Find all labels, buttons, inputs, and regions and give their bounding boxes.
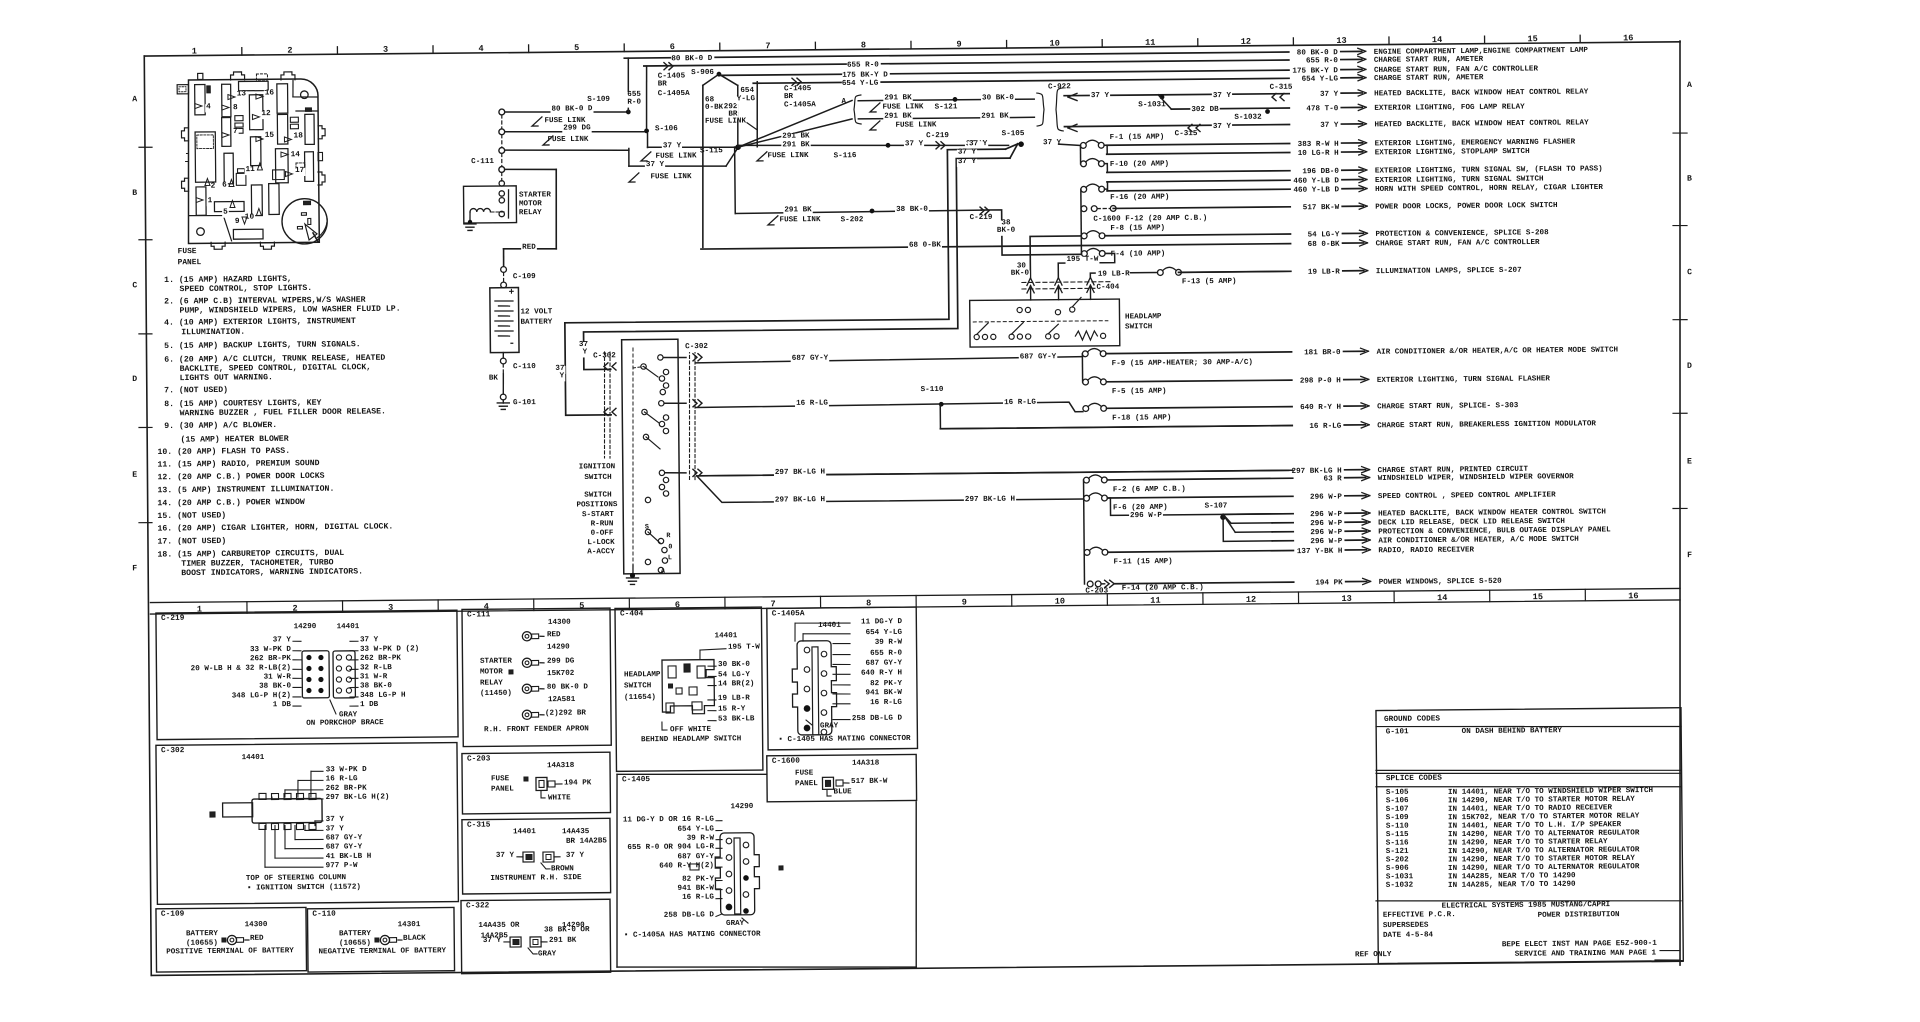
svg-text:IN 14A285, NEAR T/O TO 14290: IN 14A285, NEAR T/O TO 14290 bbox=[1448, 881, 1576, 890]
svg-text:5: 5 bbox=[574, 43, 579, 53]
svg-text:1 DB: 1 DB bbox=[273, 701, 292, 709]
svg-text:B: B bbox=[132, 189, 137, 198]
svg-text:NEGATIVE TERMINAL OF BATTERY: NEGATIVE TERMINAL OF BATTERY bbox=[318, 947, 446, 956]
svg-text:14300: 14300 bbox=[245, 921, 268, 929]
svg-text:460 Y-LB D: 460 Y-LB D bbox=[1293, 177, 1339, 185]
svg-text:EXTERIOR LIGHTING, TURN SIGNAL: EXTERIOR LIGHTING, TURN SIGNAL FLASHER bbox=[1377, 375, 1551, 385]
row7 left arrow bbox=[1068, 124, 1077, 131]
svg-text:RELAY: RELAY bbox=[519, 209, 542, 217]
svg-text:38 BK-0: 38 BK-0 bbox=[360, 682, 392, 690]
svg-text:4: 4 bbox=[478, 44, 483, 54]
splice S-109 bbox=[626, 110, 631, 115]
svg-text:655 R-0: 655 R-0 bbox=[1306, 57, 1338, 65]
svg-text:GRAY: GRAY bbox=[339, 711, 358, 719]
svg-text:16 R-LG: 16 R-LG bbox=[870, 699, 902, 707]
svg-text:30 BK-0: 30 BK-0 bbox=[718, 661, 750, 669]
svg-text:G-101: G-101 bbox=[1386, 728, 1409, 736]
svg-text:SPLICE CODES: SPLICE CODES bbox=[1386, 775, 1443, 784]
ignition switch hole bbox=[282, 199, 328, 245]
riser 655 R-0 bbox=[646, 66, 647, 128]
svg-text:BATTERY: BATTERY bbox=[339, 930, 371, 938]
svg-text:16 R-LG: 16 R-LG bbox=[1004, 399, 1036, 407]
svg-text:GRAY: GRAY bbox=[820, 722, 839, 730]
svg-text:FUSE LINK: FUSE LINK bbox=[882, 103, 924, 111]
wire 54 LG-Y -> PROTECTION & CONVENIENCE, SPLICE S-208 bbox=[1105, 234, 1290, 236]
svg-text:C: C bbox=[132, 281, 137, 290]
svg-text:11. (15 AMP) RADIO, PREMIUM SO: 11. (15 AMP) RADIO, PREMIUM SOUND bbox=[157, 458, 319, 469]
wire 478 T-0 -> EXTERIOR LIGHTING, FOG LAMP RELAY bbox=[1171, 108, 1289, 109]
splice S-115 bbox=[735, 144, 741, 150]
C-1405A connector pictorial bbox=[792, 641, 837, 735]
C-1405A leader lines bbox=[795, 623, 850, 624]
fuse bus F-2 to F-14 bbox=[1083, 480, 1086, 584]
svg-text:(10655): (10655) bbox=[186, 940, 218, 948]
relay coil bbox=[470, 208, 490, 212]
svg-text:POWER DOOR LOCKS, POWER DOOR L: POWER DOOR LOCKS, POWER DOOR LOCK SWITCH bbox=[1375, 202, 1558, 212]
svg-text:196 DB-0: 196 DB-0 bbox=[1302, 168, 1339, 176]
svg-text:296 W-P: 296 W-P bbox=[1310, 520, 1342, 528]
svg-text:291 BK: 291 BK bbox=[784, 206, 812, 214]
svg-text:687 GY-Y: 687 GY-Y bbox=[326, 843, 363, 851]
svg-text:296 W-P: 296 W-P bbox=[1310, 493, 1342, 501]
svg-text:FUSE LINK: FUSE LINK bbox=[655, 152, 697, 160]
svg-text:13: 13 bbox=[1336, 36, 1346, 46]
svg-text:12A581: 12A581 bbox=[548, 696, 576, 704]
svg-text:640 R-Y H: 640 R-Y H bbox=[1300, 404, 1342, 412]
svg-text:C-219: C-219 bbox=[970, 214, 993, 222]
wire 640 R-Y H -> CHARGE START RUN, SPLICE- S-303 bbox=[1107, 407, 1292, 409]
row letter ticks left bbox=[139, 146, 152, 148]
svg-text:6: 6 bbox=[222, 182, 227, 190]
connector detail box C-404 bbox=[615, 607, 763, 771]
fuse panel side tabs bbox=[181, 128, 188, 141]
svg-text:9: 9 bbox=[962, 597, 967, 607]
svg-text:EXTERIOR LIGHTING, FOG LAMP RE: EXTERIOR LIGHTING, FOG LAMP RELAY bbox=[1374, 103, 1525, 112]
svg-text:F-2 (6 AMP C.B.): F-2 (6 AMP C.B.) bbox=[1113, 486, 1186, 495]
svg-text:S: S bbox=[645, 523, 649, 531]
wire 37 Y -> HEATED BACKLITE, BACK WINDOW HEAT CONTRO bbox=[1064, 94, 1289, 96]
svg-text:14: 14 bbox=[1432, 35, 1442, 45]
svg-text:RADIO, RADIO RECEIVER: RADIO, RADIO RECEIVER bbox=[1378, 546, 1474, 555]
svg-text:FUSE LINK: FUSE LINK bbox=[779, 216, 821, 224]
svg-text:ON PORKCHOP BRACE: ON PORKCHOP BRACE bbox=[306, 719, 384, 728]
connector detail box C-203 bbox=[462, 752, 611, 814]
svg-text:37 Y: 37 Y bbox=[958, 158, 977, 166]
svg-text:S-105: S-105 bbox=[1002, 130, 1025, 138]
svg-text:297 BK-LG H: 297 BK-LG H bbox=[775, 496, 826, 504]
splice S-906 and risers bbox=[717, 72, 722, 77]
svg-text:A: A bbox=[841, 98, 846, 106]
svg-text:13. (5 AMP) INSTRUMENT ILLUMIN: 13. (5 AMP) INSTRUMENT ILLUMINATION. bbox=[157, 484, 334, 496]
svg-text:S-110: S-110 bbox=[1386, 823, 1409, 831]
svg-text:S-1032: S-1032 bbox=[1386, 882, 1414, 890]
svg-text:BR 14A2B5: BR 14A2B5 bbox=[566, 837, 608, 845]
fuse panel left connector block bbox=[177, 85, 188, 94]
fuse F-13 bbox=[1157, 267, 1236, 287]
svg-text:A-ACCY: A-ACCY bbox=[587, 548, 615, 556]
wire 460 Y-LB D -> HORN WITH SPEED CONTROL, HORN RELAY, CIG bbox=[1107, 189, 1290, 191]
C-404 headlamp switch pictorial bbox=[662, 660, 714, 714]
labels 37 Y near C-302 bbox=[578, 342, 589, 350]
svg-text:BR: BR bbox=[658, 80, 668, 88]
svg-text:33 W-PK D (2): 33 W-PK D (2) bbox=[360, 645, 419, 654]
svg-text:C-404: C-404 bbox=[620, 610, 644, 618]
svg-text:640 R-Y H(2): 640 R-Y H(2) bbox=[659, 862, 714, 871]
connector detail box C-322 bbox=[461, 899, 611, 973]
svg-text:10: 10 bbox=[1055, 597, 1065, 607]
svg-text:6: 6 bbox=[670, 42, 675, 52]
svg-text:19 LB-R: 19 LB-R bbox=[1308, 268, 1340, 276]
svg-text:14401: 14401 bbox=[242, 754, 265, 762]
svg-text:S-116: S-116 bbox=[1386, 839, 1409, 847]
svg-text:37 Y: 37 Y bbox=[326, 825, 345, 833]
wire 19 LB-R from C-404 to F-13 bbox=[1090, 273, 1157, 278]
svg-text:RED: RED bbox=[522, 244, 536, 252]
C-315 arrows row5 bbox=[1269, 85, 1294, 93]
svg-text:(11654): (11654) bbox=[624, 694, 656, 702]
row letter ticks right bbox=[1673, 132, 1687, 134]
connector detail box C-1600 bbox=[767, 754, 917, 801]
svg-text:37 Y: 37 Y bbox=[1043, 139, 1062, 147]
S-107 branch bulb outage bbox=[1223, 514, 1235, 532]
relay terminals bbox=[499, 191, 504, 196]
svg-text:478 T-0: 478 T-0 bbox=[1306, 105, 1338, 113]
svg-text:F: F bbox=[132, 564, 137, 573]
svg-text:BLUE: BLUE bbox=[833, 788, 852, 796]
svg-text:Y-LG: Y-LG bbox=[737, 95, 756, 103]
page border frame bbox=[143, 56, 153, 975]
svg-text:17. (NOT USED): 17. (NOT USED) bbox=[157, 536, 226, 547]
svg-text:291 BK: 291 BK bbox=[981, 113, 1009, 121]
fuse link origin circles bbox=[499, 109, 505, 115]
svg-text:54 LG-Y: 54 LG-Y bbox=[1308, 231, 1340, 239]
headlamp switch internals bbox=[973, 321, 1108, 322]
svg-text:FUSE: FUSE bbox=[795, 770, 814, 778]
svg-text:E: E bbox=[132, 471, 137, 480]
svg-text:C-203: C-203 bbox=[467, 755, 491, 763]
connector detail box C-110 bbox=[307, 907, 454, 972]
wire 297 BK-LG H -> CHARGE START RUN, PRINTED CIRCUIT bbox=[700, 470, 1293, 475]
svg-text:BATTERY: BATTERY bbox=[186, 930, 218, 938]
svg-text:▪ IGNITION SWITCH (11572): ▪ IGNITION SWITCH (11572) bbox=[247, 884, 361, 893]
wire 37 Y W1 to ignition switch bbox=[563, 149, 1008, 415]
row 291 BK - 291 BK bbox=[858, 117, 1034, 119]
wire 63 R -> WINDSHIELD WIPER, WINDSHIELD WIPER GOVER bbox=[1107, 478, 1292, 480]
svg-text:37 Y: 37 Y bbox=[273, 636, 292, 644]
svg-text:F-1 (15 AMP): F-1 (15 AMP) bbox=[1110, 133, 1165, 142]
svg-text:ILLUMINATION LAMPS, SPLICE S-2: ILLUMINATION LAMPS, SPLICE S-207 bbox=[1376, 267, 1522, 276]
svg-text:262 BR-PK: 262 BR-PK bbox=[326, 785, 368, 793]
svg-text:63 R: 63 R bbox=[1323, 475, 1342, 483]
svg-text:39 R-W: 39 R-W bbox=[875, 639, 903, 647]
headlamp switch SW2 bbox=[970, 299, 1120, 347]
svg-text:654 Y-LG: 654 Y-LG bbox=[677, 825, 714, 833]
svg-text:BEHIND HEADLAMP SWITCH: BEHIND HEADLAMP SWITCH bbox=[641, 735, 742, 744]
wire 297 BK-LG H row A bbox=[665, 472, 686, 474]
fuse panel top tabs bbox=[231, 72, 245, 80]
svg-text:BACKLITE, SPEED CONTROL, DIGIT: BACKLITE, SPEED CONTROL, DIGITAL CLOCK, bbox=[180, 363, 372, 374]
wire 19 LB-R -> ILLUMINATION LAMPS, SPLICE S-207 bbox=[1179, 271, 1291, 272]
splice S-106 bbox=[644, 128, 649, 133]
wire 460 Y-LB D -> EXTERIOR LIGHTING, TURN SIGNAL SWITCH bbox=[1107, 180, 1290, 182]
row4 654 Y-LG arrows C-1405 bbox=[792, 78, 796, 85]
svg-text:291 BK: 291 BK bbox=[884, 94, 912, 102]
svg-text:S-121: S-121 bbox=[1386, 848, 1409, 856]
wire 16 R-LG ignition to F-18 bbox=[664, 402, 686, 404]
ignition switch wafer dashed bbox=[631, 348, 635, 565]
wire 38 BK-0 from S-202 arrow to F-4 bbox=[981, 209, 1081, 255]
svg-text:POWER WINDOWS, SPLICE S-520: POWER WINDOWS, SPLICE S-520 bbox=[1379, 578, 1503, 587]
svg-text:F-13 (5 AMP): F-13 (5 AMP) bbox=[1182, 278, 1237, 287]
svg-text:WARNING BUZZER , FUEL FILLER D: WARNING BUZZER , FUEL FILLER DOOR RELEAS… bbox=[180, 407, 386, 418]
svg-text:37 Y: 37 Y bbox=[326, 816, 345, 824]
svg-text:262 BR-PK: 262 BR-PK bbox=[250, 655, 292, 663]
svg-text:37 Y: 37 Y bbox=[566, 852, 585, 860]
splice S-110 bbox=[939, 402, 944, 407]
fuse bus F-16 to F-4 bbox=[1080, 189, 1083, 253]
wire 175 BK-Y D -> CHARGE START RUN, FAN A/C CONTROLLER bbox=[719, 70, 1289, 75]
svg-text:291 BK: 291 BK bbox=[549, 937, 577, 945]
svg-text:262 BR-PK: 262 BR-PK bbox=[360, 655, 402, 663]
svg-text:POWER DISTRIBUTION: POWER DISTRIBUTION bbox=[1538, 911, 1621, 920]
svg-text:SERVICE AND TRAINING MAN PAGE: SERVICE AND TRAINING MAN PAGE 1 bbox=[1515, 949, 1657, 958]
svg-text:DATE 4-5-84: DATE 4-5-84 bbox=[1383, 931, 1434, 939]
wire 10 LG-R H -> EXTERIOR LIGHTING, STOPLAMP SWITCH bbox=[1107, 153, 1290, 155]
C-219 arrows on 37Y bus bbox=[936, 142, 940, 149]
svg-text:GRAY: GRAY bbox=[726, 920, 745, 928]
wire 80 BK-0 D -> ENGINE COMPARTMENT LAMP,ENGINE COMPARTME bbox=[624, 52, 1288, 58]
svg-text:383 R-W H: 383 R-W H bbox=[1298, 141, 1340, 149]
svg-text:FUSE: FUSE bbox=[491, 775, 510, 783]
C-1405 connector pictorial bbox=[715, 833, 760, 915]
C-219 gray note bbox=[330, 700, 336, 714]
svg-text:F-10 (20 AMP): F-10 (20 AMP) bbox=[1110, 160, 1169, 169]
wire 296 W-P -> SPEED CONTROL , SPEED CONTROL AMPLIFIER bbox=[1107, 496, 1292, 498]
wire 296 W-P to S-107 fan bbox=[1107, 497, 1223, 515]
svg-text:TOP OF STEERING COLUMN: TOP OF STEERING COLUMN bbox=[246, 874, 347, 883]
wire 296 W-P -> AIR CONDITIONER &/OR HEATER, A/C MODE SW bbox=[1272, 540, 1293, 542]
svg-text:STARTER: STARTER bbox=[519, 191, 551, 199]
svg-text:195 T-W: 195 T-W bbox=[1066, 256, 1098, 264]
splice codes table bbox=[1376, 768, 1681, 774]
svg-text:F-16 (20 AMP): F-16 (20 AMP) bbox=[1110, 194, 1169, 203]
svg-text:B: B bbox=[1687, 175, 1692, 184]
svg-text:30 BK-0: 30 BK-0 bbox=[982, 94, 1014, 102]
svg-text:53 BK-LB: 53 BK-LB bbox=[718, 715, 755, 723]
svg-text:S-106: S-106 bbox=[655, 125, 678, 133]
wire 383 R-W H -> EXTERIOR LIGHTING, EMERGENCY WARNING FLA bbox=[1107, 144, 1290, 146]
svg-text:297 BK-LG H(2): 297 BK-LG H(2) bbox=[326, 793, 390, 802]
svg-text:11 DG-Y D OR 16 R-LG: 11 DG-Y D OR 16 R-LG bbox=[623, 816, 715, 825]
ignition switch ground bbox=[632, 565, 634, 574]
svg-text:3: 3 bbox=[383, 45, 388, 55]
svg-text:68 0-BK: 68 0-BK bbox=[1308, 241, 1340, 249]
svg-text:291 BK: 291 BK bbox=[782, 132, 810, 140]
svg-text:MOTOR: MOTOR bbox=[519, 200, 542, 208]
S-202 fuse link row 291 BK 38 BK-0 bbox=[735, 210, 981, 213]
svg-text:CHARGE START RUN, FAN A/C CONT: CHARGE START RUN, FAN A/C CONTROLLER bbox=[1376, 239, 1541, 249]
svg-text:37 Y: 37 Y bbox=[1091, 92, 1110, 100]
relay ground bbox=[468, 220, 472, 224]
svg-text:655 R-0: 655 R-0 bbox=[847, 61, 879, 69]
svg-text:181 BR-0: 181 BR-0 bbox=[1304, 349, 1341, 357]
svg-text:39 R-W: 39 R-W bbox=[687, 835, 715, 843]
svg-text:S-202: S-202 bbox=[1386, 856, 1409, 864]
svg-text:S-107: S-107 bbox=[1386, 806, 1409, 814]
fuse F-18 bbox=[1083, 403, 1172, 423]
C-302 connector pictorial bbox=[223, 803, 253, 817]
svg-text:F-9 (15 AMP-HEATER; 30 AMP-A/C: F-9 (15 AMP-HEATER; 30 AMP-A/C) bbox=[1112, 359, 1253, 368]
svg-text:18: 18 bbox=[294, 132, 304, 140]
fuse F-8 bbox=[1081, 224, 1165, 238]
wire 292 BR riser bbox=[737, 85, 738, 146]
svg-text:33 W-PK D: 33 W-PK D bbox=[250, 646, 292, 654]
svg-text:8: 8 bbox=[233, 104, 238, 112]
title block bbox=[1376, 898, 1681, 904]
wire 291 BK / S-116 row to S-105 bbox=[738, 143, 1009, 148]
ignition switch levers bbox=[644, 366, 658, 377]
svg-text:37 Y: 37 Y bbox=[905, 140, 924, 148]
svg-text:299 DG: 299 DG bbox=[547, 658, 575, 666]
svg-text:14A435: 14A435 bbox=[562, 828, 590, 836]
svg-text:1: 1 bbox=[192, 47, 197, 57]
ignition switch SW1 bbox=[622, 339, 680, 574]
wire 297 BK-LG H row B bbox=[697, 472, 1084, 502]
splice S-1031 bbox=[1160, 95, 1165, 100]
svg-text:12: 12 bbox=[261, 110, 271, 118]
svg-text:C-110: C-110 bbox=[312, 911, 336, 919]
svg-text:15: 15 bbox=[265, 132, 275, 140]
svg-text:37 Y: 37 Y bbox=[483, 937, 502, 945]
svg-text:PANEL: PANEL bbox=[491, 786, 514, 794]
wire 37 Y -> HEATED BACKLITE, BACK WINDOW HEAT CONTRO bbox=[1064, 125, 1289, 127]
svg-text:S-107: S-107 bbox=[1205, 502, 1228, 510]
svg-text:14290: 14290 bbox=[294, 623, 317, 631]
svg-text:38 BK-0: 38 BK-0 bbox=[896, 206, 928, 214]
svg-text:CHARGE START RUN, AMETER: CHARGE START RUN, AMETER bbox=[1374, 74, 1484, 83]
svg-text:4: 4 bbox=[206, 103, 211, 111]
svg-text:PANEL: PANEL bbox=[795, 780, 818, 788]
svg-text:37 Y: 37 Y bbox=[496, 852, 515, 860]
svg-text:D: D bbox=[132, 375, 137, 384]
brace A with rows 291 BK bbox=[854, 95, 861, 124]
fuse F-16 bbox=[1081, 183, 1170, 202]
splice S-1032 bbox=[1265, 109, 1270, 114]
svg-text:FUSE LINK: FUSE LINK bbox=[547, 136, 589, 144]
svg-text:SUPERSEDES: SUPERSEDES bbox=[1383, 922, 1429, 930]
svg-text:16 R-LG: 16 R-LG bbox=[1309, 423, 1341, 431]
svg-text:FUSE LINK: FUSE LINK bbox=[650, 173, 692, 181]
svg-text:12. (20 AMP C.B.) POWER DOOR L: 12. (20 AMP C.B.) POWER DOOR LOCKS bbox=[157, 471, 324, 483]
svg-text:OFF WHITE: OFF WHITE bbox=[670, 726, 712, 734]
svg-text:82 PK-Y: 82 PK-Y bbox=[682, 875, 714, 883]
svg-text:11 DG-Y D: 11 DG-Y D bbox=[861, 618, 903, 626]
svg-text:STARTER: STARTER bbox=[480, 658, 512, 666]
ignition switch internal contacts bbox=[641, 364, 646, 369]
svg-text:EXTERIOR LIGHTING, TURN SIGNAL: EXTERIOR LIGHTING, TURN SIGNAL SWITCH bbox=[1375, 175, 1544, 185]
svg-text:EXTERIOR LIGHTING, STOPLAMP SW: EXTERIOR LIGHTING, STOPLAMP SWITCH bbox=[1375, 148, 1530, 157]
fuse F-10 bbox=[1081, 158, 1170, 169]
svg-text:5: 5 bbox=[223, 209, 228, 217]
svg-text:14 BR(2): 14 BR(2) bbox=[718, 680, 755, 688]
svg-text:14A435 OR: 14A435 OR bbox=[478, 922, 520, 930]
ground G-101 bbox=[500, 394, 506, 400]
svg-text:687 GY-Y: 687 GY-Y bbox=[1020, 353, 1057, 361]
wire 654 Y-LG -> CHARGE START RUN, AMETER bbox=[753, 78, 1289, 83]
svg-text:BLACK: BLACK bbox=[403, 935, 426, 943]
svg-text:BOOST INDICATORS, WARNING INDI: BOOST INDICATORS, WARNING INDICATORS. bbox=[181, 567, 363, 578]
svg-text:CHARGE START RUN, SPLICE- S-30: CHARGE START RUN, SPLICE- S-303 bbox=[1377, 402, 1519, 411]
svg-text:687 GY-Y: 687 GY-Y bbox=[326, 834, 363, 842]
svg-text:▪ C-1405 HAS MATING CONNECTOR: ▪ C-1405 HAS MATING CONNECTOR bbox=[778, 735, 911, 744]
svg-text:S-1031: S-1031 bbox=[1138, 101, 1166, 109]
jog F-10 to row 196 DB-0 bbox=[1104, 164, 1107, 173]
svg-text:37 Y: 37 Y bbox=[1320, 122, 1339, 130]
svg-text:655 R-0: 655 R-0 bbox=[870, 650, 902, 658]
svg-text:SWITCH: SWITCH bbox=[1125, 323, 1153, 331]
fuse bus F-1 to F-10 bbox=[1079, 145, 1081, 163]
wire 296 W-P -> HEATED BACKLITE, BACK WINDOW HEATER CONT bbox=[1225, 513, 1293, 516]
C-302 output dashed connector bbox=[688, 350, 690, 480]
svg-text:IGNITION: IGNITION bbox=[579, 463, 616, 471]
svg-text:ON DASH BEHIND BATTERY: ON DASH BEHIND BATTERY bbox=[1462, 727, 1563, 736]
svg-text:C-111: C-111 bbox=[467, 611, 491, 619]
svg-text:C-302: C-302 bbox=[161, 747, 185, 755]
svg-text:68 0-BK: 68 0-BK bbox=[909, 241, 941, 249]
svg-text:517 BK-W: 517 BK-W bbox=[851, 778, 888, 786]
splice S-105 bbox=[1018, 141, 1024, 147]
svg-text:20 W-LB H & 32 R-LB(2): 20 W-LB H & 32 R-LB(2) bbox=[191, 664, 291, 673]
svg-text:SPEED CONTROL , SPEED CONTROL: SPEED CONTROL , SPEED CONTROL AMPLIFIER bbox=[1378, 491, 1556, 501]
S-107 branch deck lid bbox=[1223, 514, 1231, 523]
svg-text:16: 16 bbox=[1623, 33, 1633, 43]
svg-text:460 Y-LB D: 460 Y-LB D bbox=[1293, 186, 1339, 194]
svg-text:F-11 (15 AMP): F-11 (15 AMP) bbox=[1113, 558, 1172, 567]
svg-text:11: 11 bbox=[1145, 38, 1155, 48]
svg-text:654 Y-LG: 654 Y-LG bbox=[866, 629, 903, 637]
svg-text:(15 AMP) HEATER BLOWER: (15 AMP) HEATER BLOWER bbox=[180, 434, 288, 445]
svg-text:296 W-P: 296 W-P bbox=[1310, 529, 1342, 537]
fuse panel mount holes bbox=[300, 91, 308, 99]
wire C-111 to battery (RED) bbox=[505, 168, 557, 171]
wire 37 Y from S-106 to S-115 bbox=[646, 133, 648, 147]
svg-text:A: A bbox=[132, 95, 137, 104]
svg-text:37 Y: 37 Y bbox=[646, 161, 665, 169]
svg-text:654 Y-LG: 654 Y-LG bbox=[842, 80, 879, 88]
svg-text:16 R-LG: 16 R-LG bbox=[326, 775, 358, 783]
svg-text:F-18 (15 AMP): F-18 (15 AMP) bbox=[1112, 414, 1171, 423]
fuse panel bottom tabs bbox=[211, 242, 225, 249]
svg-text:654 Y-LG: 654 Y-LG bbox=[1302, 75, 1339, 83]
svg-text:Y: Y bbox=[583, 348, 588, 356]
svg-text:16 R-LG: 16 R-LG bbox=[682, 894, 714, 902]
svg-text:137 Y-BK H: 137 Y-BK H bbox=[1297, 548, 1343, 556]
svg-text:C-315: C-315 bbox=[1270, 84, 1293, 92]
svg-text:R.H. FRONT FENDER APRON: R.H. FRONT FENDER APRON bbox=[484, 725, 589, 734]
svg-text:S-110: S-110 bbox=[921, 386, 944, 394]
splice S-116 bbox=[886, 143, 891, 148]
svg-text:37 Y: 37 Y bbox=[663, 142, 682, 150]
C-315 arrows row7 bbox=[1174, 131, 1199, 139]
svg-text:296 W-P: 296 W-P bbox=[1310, 511, 1342, 519]
svg-text:14: 14 bbox=[1437, 593, 1447, 603]
svg-text:S-1032: S-1032 bbox=[1234, 114, 1262, 122]
C-219 connector bodies bbox=[302, 651, 329, 698]
svg-text:687 GY-Y: 687 GY-Y bbox=[792, 355, 829, 363]
svg-text:BK-0: BK-0 bbox=[997, 227, 1016, 235]
svg-text:FUSE LINK: FUSE LINK bbox=[767, 152, 809, 160]
svg-text:15. (NOT USED): 15. (NOT USED) bbox=[157, 510, 226, 521]
